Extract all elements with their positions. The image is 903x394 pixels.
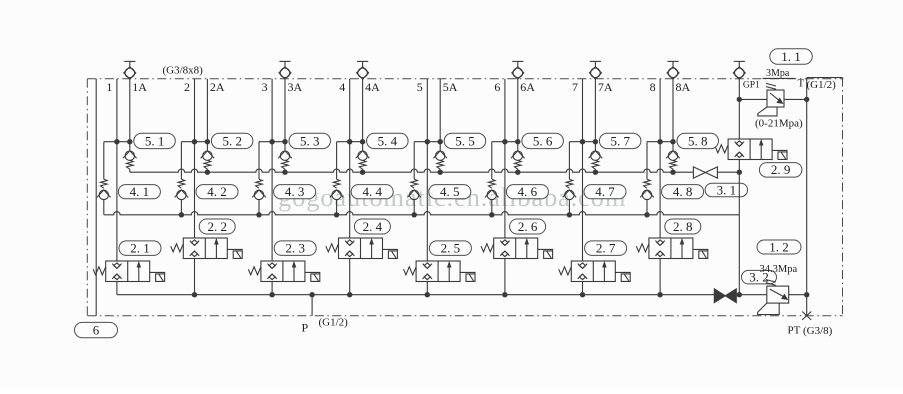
check valve 4.2 [175,179,189,199]
svg-text:5. 2: 5. 2 [222,133,242,148]
shutoff valve 3.1 [693,167,717,178]
svg-text:1. 1: 1. 1 [781,49,801,64]
border top-right solid segment over (G1/2) [807,77,843,79]
svg-text:2. 2: 2. 2 [207,219,227,234]
check valve 4.1 [97,179,111,199]
svg-text:34.3Mpa: 34.3Mpa [760,264,798,275]
svg-text:GP1: GP1 [743,80,760,90]
check valve 4.4 [330,179,344,199]
node 5.7 outlet [593,170,598,175]
label oval 2.2 [199,219,235,234]
check valve 5.3 [278,151,292,172]
svg-text:5. 1: 5. 1 [145,133,165,148]
svg-text:3Mpa: 3Mpa [766,68,790,79]
svg-text:5. 8: 5. 8 [688,133,708,148]
label oval 5.2 [211,133,253,148]
svg-text:2. 5: 2. 5 [441,241,461,256]
coupler port 6A [512,61,524,79]
wire relief 1.2 outlet to T [789,294,807,296]
coupler GP1 [733,61,745,79]
label oval 2.7 [585,241,627,256]
wire port 2 line [194,79,196,238]
wire port 6A line [517,79,519,151]
wire port 3A line [284,79,286,151]
wire feed bus [104,212,740,215]
node port 4A junction [360,139,365,144]
wire section 2 header [181,141,207,143]
node port 1 junction [114,139,119,144]
svg-text:5. 7: 5. 7 [610,133,630,148]
label oval 5.8 [677,133,719,148]
label oval 2.4 [354,219,390,234]
node port 7 junction [580,139,585,144]
wire port 4A line [362,79,364,151]
wire port 1 line [116,79,118,261]
coupler port 3A [279,61,291,79]
check valve 5.7 [589,151,603,172]
svg-text:4. 5: 4. 5 [440,184,460,199]
svg-text:2. 1: 2. 1 [130,241,150,256]
node valve 2.6 drain junction [502,292,507,297]
port PT closed mark [802,312,811,320]
svg-text:1: 1 [106,80,112,94]
svg-text:4. 6: 4. 6 [518,184,538,199]
node port 8A junction [670,139,675,144]
label oval 3.1 [705,183,748,197]
wire feed 6 lower [491,200,493,215]
wire feed 8 upper [646,142,648,180]
svg-text:4. 2: 4. 2 [207,184,227,199]
node port 6 junction [502,139,507,144]
label oval 5.6 [522,133,564,148]
svg-text:(G1/2): (G1/2) [807,79,837,91]
node 5.4 outlet [360,170,365,175]
node feed 2 junction [179,212,184,217]
solenoid valve 2.2 [171,238,243,259]
node valve 2.4 drain junction [347,292,352,297]
wire section 4 header [337,141,363,143]
node GP1 column to P bus [737,292,742,297]
label oval 2.5 [429,241,471,256]
node 5.5 outlet [438,170,443,175]
check valve 5.2 [201,151,215,172]
svg-text:(G1/2): (G1/2) [319,317,349,329]
svg-text:P: P [302,321,309,335]
wire port 8 line [659,79,661,238]
wire valve 2.3 to P bus [271,282,273,295]
wire port 2A line [206,79,208,151]
wire P bus to relief 1.2 [736,294,767,296]
svg-text:6A: 6A [520,80,535,94]
node 5.3 outlet [282,170,287,175]
node feed 6 junction [489,212,494,217]
wire valve 2.8 to P bus [659,259,661,295]
node 5.6 outlet [515,170,520,175]
wire port 5A line [439,79,441,151]
coupler port 4A [357,61,369,79]
wire feed 3 lower [258,200,260,215]
wire check-outlet bus [130,169,694,172]
enclosure border right [842,78,844,316]
solenoid valve 2.9 [716,139,788,160]
check valve 5.6 [511,151,525,172]
node valve 2.8 drain junction [657,292,662,297]
label oval 4.4 [351,185,393,199]
node valve 2.7 drain junction [580,292,585,297]
check valve 5.5 [433,151,447,172]
wire P bus [117,294,714,296]
svg-text:7A: 7A [598,80,613,94]
wire port 6 line [504,79,506,238]
wire port 5 line [426,79,428,261]
wire valve 2.5 to P bus [426,282,428,295]
wire section 3 header [259,141,285,143]
label oval 2.8 [665,219,701,234]
svg-text:4. 3: 4. 3 [285,184,305,199]
svg-text:1A: 1A [132,80,147,94]
node GP1 junction [737,97,742,102]
check valve 4.3 [252,179,266,199]
svg-text:2. 9: 2. 9 [771,162,791,177]
svg-text:4. 8: 4. 8 [673,184,693,199]
node T bottom junction [804,292,809,297]
relief valve 1.1 [758,83,784,116]
svg-text:5: 5 [417,80,423,94]
wire feed 4 lower [336,200,338,215]
svg-text:5. 3: 5. 3 [300,133,320,148]
svg-text:5A: 5A [443,80,458,94]
node port 6A junction [515,139,520,144]
wire feed 2 lower [180,200,182,215]
check valve 4.8 [640,179,654,199]
wire section 6 header [492,141,518,143]
enclosure border bottom [87,315,842,317]
svg-text:4. 1: 4. 1 [130,184,150,199]
wire feed 8 lower [646,200,648,215]
wire GP1 column down [738,172,740,295]
node feed 5 junction [412,212,417,217]
label oval 2.6 [510,219,546,234]
node port 2 junction [192,139,197,144]
node 5.2 outlet [205,170,210,175]
node 2.9 outlet junction [737,170,742,175]
svg-text:(0-21Mpa): (0-21Mpa) [755,118,803,130]
solenoid valve 2.6 [481,238,552,259]
wire feed 5 upper [413,142,415,180]
label oval 4.3 [274,185,316,199]
wire port 8A line [672,79,674,151]
label oval 5.4 [367,133,409,148]
solenoid valve 2.3 [248,261,319,282]
svg-text:7: 7 [572,80,578,94]
wire section 1 header [104,141,130,143]
wire valve 2.2 to P bus [194,259,196,295]
svg-text:6: 6 [93,322,100,337]
svg-text:6: 6 [494,80,500,94]
node valve 2.5 drain junction [425,292,430,297]
svg-text:4. 4: 4. 4 [362,184,382,199]
svg-text:1. 2: 1. 2 [769,239,789,254]
node valve 2.2 drain junction [192,292,197,297]
wire T line [806,78,808,316]
svg-text:2. 3: 2. 3 [285,241,305,256]
wire GP1 line [738,79,740,139]
wire bus to GP1 column [718,171,740,173]
wire port 3 line [271,79,273,261]
wire feed 1 lower [103,200,105,215]
svg-text:(G3/8x8): (G3/8x8) [163,64,204,76]
node T top junction [804,97,809,102]
node feed 3 junction [256,212,261,217]
solenoid valve 2.7 [559,261,631,282]
wire feed 1 upper [103,142,105,180]
label oval 5.5 [444,133,486,148]
svg-text:4. 7: 4. 7 [595,184,615,199]
svg-text:3. 1: 3. 1 [717,182,737,197]
label oval 6 [75,322,118,337]
wire feed 5 lower [413,200,415,215]
coupler port 7A [589,61,601,79]
node 5.8 outlet [670,170,675,175]
wire section 8 header [647,141,673,143]
wire section 5 header [414,141,440,143]
wire feed 7 lower [568,200,570,215]
node valve 2.3 drain junction [269,292,274,297]
svg-text:4A: 4A [365,80,380,94]
svg-text:(G3/8): (G3/8) [803,325,833,337]
node port 2A junction [205,139,210,144]
wire feed 3 upper [258,142,260,180]
svg-text:2. 6: 2. 6 [518,219,538,234]
svg-text:2A: 2A [210,80,225,94]
svg-text:8A: 8A [676,80,691,94]
svg-text:2. 8: 2. 8 [673,219,693,234]
wire port 7 line [582,79,584,261]
wire feed 4 upper [336,142,338,180]
wire port 4 line [349,79,351,238]
node port 1A junction [127,139,132,144]
coupler port 1A [124,61,136,79]
label oval 5.7 [599,133,641,148]
label oval 2.9 [759,163,802,178]
node port 8 junction [657,139,662,144]
check valve 5.8 [666,151,680,172]
label oval 1.1 [770,49,813,65]
node feed 4 junction [334,212,339,217]
svg-text:3A: 3A [288,80,303,94]
label oval 5.3 [289,133,331,148]
svg-text:5. 6: 5. 6 [533,133,553,148]
wire section 7 header [569,141,595,143]
solenoid valve 2.5 [404,261,476,282]
node port 5A junction [438,139,443,144]
node feed 7 junction [567,212,572,217]
label oval 4.6 [506,185,548,199]
solenoid valve 2.1 [93,261,165,282]
wire valve 2.9 to bus [738,160,740,173]
svg-text:PT: PT [788,325,801,337]
enclosure border top [87,78,843,80]
check valve 4.5 [407,179,421,199]
svg-text:2. 4: 2. 4 [363,219,383,234]
label oval 2.3 [274,241,316,256]
solenoid valve 2.8 [636,238,708,259]
wire P port [311,295,313,316]
label oval 4.1 [118,185,160,199]
label oval 4.7 [584,185,626,199]
node port 4 junction [347,139,352,144]
svg-text:8: 8 [650,80,656,94]
wire feed 7 upper [568,142,570,180]
check valve 4.6 [485,179,499,199]
coupler port 8A [667,61,679,79]
node feed 8 junction [644,212,649,217]
label oval 4.5 [429,185,471,199]
wire underline 3Mpa [763,77,796,79]
label oval 5.1 [134,133,176,148]
label oval 4.8 [662,185,704,199]
wire feed 6 upper [491,142,493,180]
wire port 1A line [129,79,131,151]
wire valve 2.7 to P bus [582,282,584,295]
label oval 1.2 [757,240,801,254]
svg-text:T: T [798,77,805,89]
node port 5 junction [425,139,430,144]
enclosure border left [86,79,88,316]
svg-text:4: 4 [339,80,345,94]
wire valve 2.6 to P bus [504,259,506,295]
node port 3A junction [282,139,287,144]
check valve 4.7 [563,179,577,199]
wire port 7A line [594,79,596,151]
node port 7A junction [593,139,598,144]
wire to relief 1.1 inlet [739,98,767,100]
node port 3 junction [269,139,274,144]
svg-text:5. 5: 5. 5 [455,133,475,148]
node P junction [309,292,314,297]
solenoid valve 2.4 [326,238,398,259]
shutoff valve 3.2 (closed) [714,289,725,303]
relief valve 1.2 [758,280,789,315]
wire valve 2.1 to P bus [116,282,118,295]
check valve 5.4 [356,151,370,172]
check valve 5.1 [123,151,137,172]
label oval 3.2 [742,270,777,284]
svg-text:5. 4: 5. 4 [378,133,398,148]
label oval 2.1 [119,241,161,256]
wire valve 2.4 to P bus [349,259,351,295]
svg-text:2. 7: 2. 7 [596,241,616,256]
wire relief 1.1 outlet to T [784,98,807,100]
wire feed 2 upper [180,142,182,180]
left gallery line [95,79,97,316]
svg-text:2: 2 [184,80,190,94]
svg-text:3: 3 [262,80,268,94]
label oval 4.2 [196,185,238,199]
